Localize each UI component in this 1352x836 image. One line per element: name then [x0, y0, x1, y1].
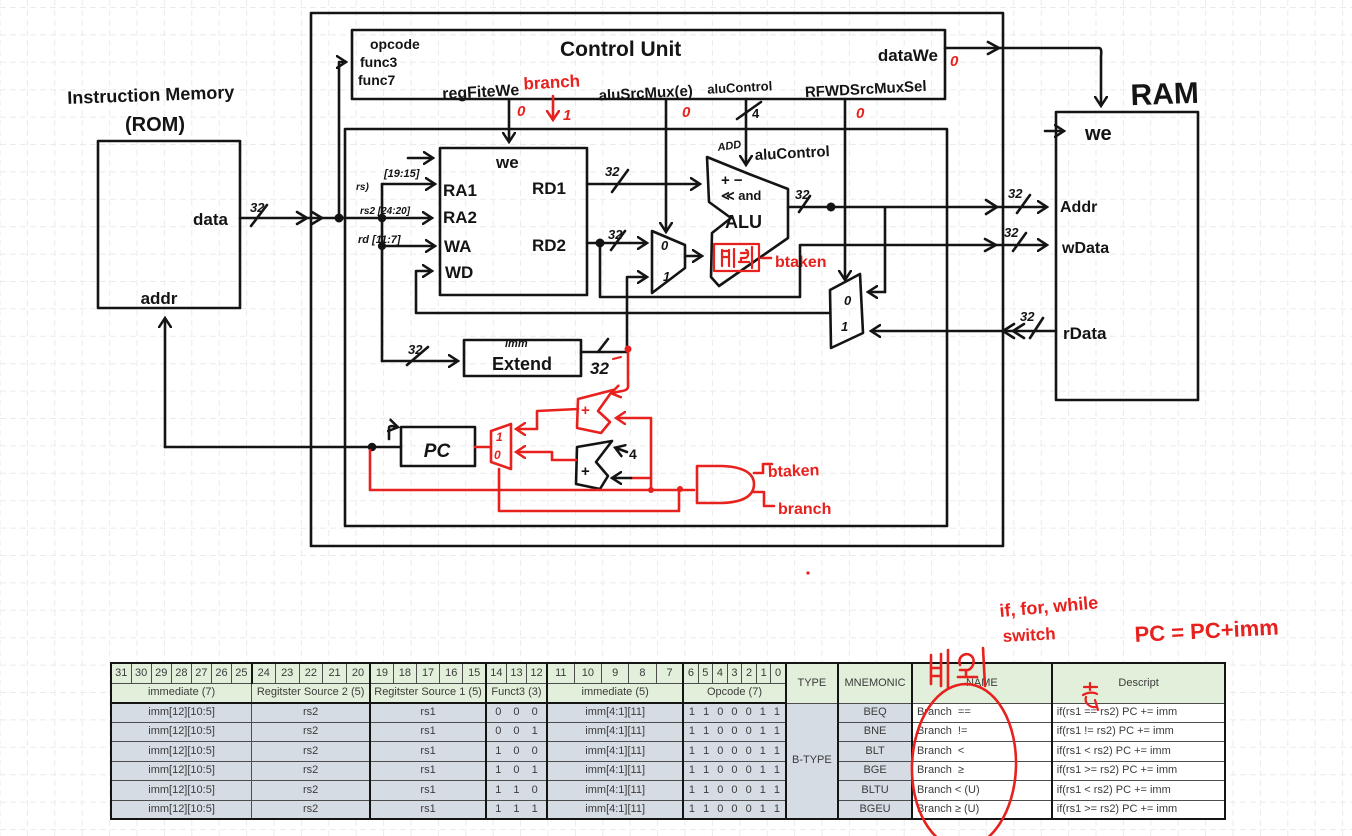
wire RFWDSrcMuxSel to mux M2: [844, 99, 847, 279]
register file box: [440, 148, 587, 295]
bus width 32 addr: [1017, 195, 1030, 213]
red circle over NAME column: [909, 682, 1019, 836]
instruction memory ROM box: [98, 141, 240, 308]
PC clock arrow: [389, 426, 397, 439]
sign extend box: [464, 340, 581, 376]
btaken stub (red): [754, 464, 772, 473]
bus width 32 RD1: [612, 170, 628, 192]
korean note above NAME (red): [931, 648, 985, 688]
mux M3 PC select (red): [491, 424, 511, 469]
regfile clock input: [408, 157, 432, 160]
bus width 32 ALU out: [799, 196, 810, 212]
wire aluSrcMux select to mux M1: [665, 99, 668, 231]
ALU U2: [707, 157, 788, 286]
wire rs1 field to RA1: [382, 183, 434, 186]
wire imm field to Extend: [382, 360, 457, 363]
mux M1: [652, 231, 685, 293]
wire extend output: [581, 351, 627, 354]
branch value arrow (red): [552, 96, 555, 119]
wire ALU output to RAM Addr: [788, 206, 1046, 209]
wire adder A1 to mux M3 input 1 (red): [517, 409, 578, 429]
bus width 32 RD2: [611, 231, 625, 250]
wire instruction to control unit: [339, 62, 345, 218]
bus width 32 rData: [1030, 318, 1043, 338]
adder A1 PC+imm (red): [577, 390, 613, 433]
wire imm to adder A1 (red): [612, 350, 628, 393]
outer enclosure box: [311, 13, 1003, 546]
bus width 32 extend input: [407, 347, 428, 365]
constant 4 input: [616, 448, 627, 452]
wire PC feedback (red): [370, 450, 694, 490]
zero flag red box: [714, 244, 759, 271]
pin we RAM: [1045, 130, 1063, 133]
wire rd field to WA: [382, 245, 434, 248]
stray red dot: [806, 571, 809, 574]
adder A2 PC+4: [576, 441, 612, 489]
wire mux M2 output to regfile WD: [416, 271, 830, 313]
wire regFiteWe to regfile we: [508, 99, 511, 141]
wire branch taken to mux M3 select (red): [499, 469, 679, 511]
control unit box U1: [352, 30, 945, 99]
branch stub (red): [753, 492, 774, 506]
RAM box: [1056, 112, 1198, 400]
wire RD1 to ALU A: [587, 183, 699, 186]
wire next PC into PC: [165, 446, 401, 449]
wire adder A2 to mux M3 input 0 (red): [517, 452, 576, 460]
wire RD2 loop to RAM wData: [600, 243, 1046, 297]
wire PC to ROM addr: [164, 319, 167, 447]
wire instruction bus data to regfile: [240, 217, 431, 220]
wire imm up to mux M1 input 1: [627, 277, 646, 352]
wire mux M1 to ALU B: [685, 255, 701, 258]
mux M2: [830, 274, 863, 348]
wire PC value to adders (red): [617, 418, 651, 490]
bus width 4 on aluControl: [737, 102, 761, 119]
datapath inner box: [345, 129, 947, 526]
wire aluControl to ALU: [745, 99, 748, 164]
AND gate G1 (red): [697, 466, 754, 503]
wire RD2 to mux M1 input 0: [587, 242, 646, 245]
wire RAM rData to mux M2 input 1: [872, 330, 1056, 333]
PC register box: [401, 427, 475, 466]
wire mux M3 to PC (red): [475, 446, 491, 449]
label btaken at ALU (red): [762, 257, 771, 260]
korean note true (red): [1083, 683, 1098, 710]
wire dataWe to RAM we: [945, 48, 1101, 105]
wire ALU out down to mux M2 input 0: [884, 207, 887, 292]
bus width 32 on data: [251, 205, 267, 226]
instruction field riser: [381, 184, 384, 361]
bus width 32 wData: [1013, 233, 1026, 251]
